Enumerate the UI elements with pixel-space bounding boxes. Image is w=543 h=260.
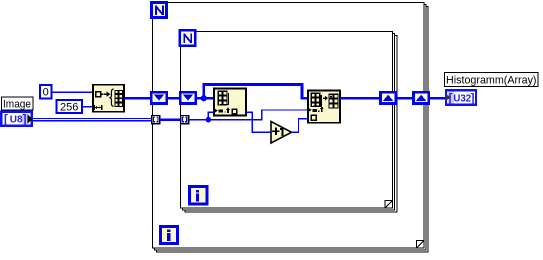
wire pixel stub up into Index Array index input bbox=[208, 112, 209, 120]
iteration terminal i inner bbox=[190, 187, 208, 205]
shift register outer right (up arrow) bbox=[414, 92, 429, 103]
indicator terminal Histogramm [U32] 1D array bbox=[445, 90, 476, 105]
for-loop outer main frame bbox=[153, 3, 425, 249]
for-loop inner frame stacked copies bbox=[183, 34, 397, 213]
count terminal N inner bbox=[180, 30, 196, 46]
control label Image bbox=[2, 97, 34, 110]
wire 0 to Initialize Array bbox=[51, 92, 93, 94]
svg-text:[: [ bbox=[4, 114, 8, 126]
count terminal N outer bbox=[152, 3, 167, 18]
wire +1 output up into Replace new-element input bbox=[292, 132, 300, 133]
wire Initialize Array output to outer left shift register (1D array, thick) bbox=[124, 97, 152, 100]
function Index Array U2 bbox=[214, 89, 246, 116]
shift register inner right (up arrow) bbox=[381, 92, 396, 103]
svg-text:]: ] bbox=[23, 114, 27, 126]
wire Index Array output down to +1 bbox=[246, 112, 253, 113]
for-loop inner folded corner bbox=[385, 201, 393, 209]
wire junction riser and top rail to Replace Array Subset (thick) bbox=[202, 83, 205, 97]
wire 256 to Initialize Array bbox=[82, 106, 93, 108]
svg-text:U8: U8 bbox=[10, 115, 23, 126]
tunnel auto-index outer [] bbox=[152, 115, 160, 123]
svg-text:Image: Image bbox=[3, 98, 31, 110]
function increment +1 bbox=[271, 122, 292, 144]
svg-text:U32: U32 bbox=[453, 93, 471, 104]
svg-text:[: [ bbox=[449, 93, 453, 105]
wire pixel junction dot bbox=[206, 117, 212, 123]
function Replace Array Subset U3 bbox=[308, 90, 340, 122]
wire inner right SR to outer right SR (thick) bbox=[396, 97, 414, 100]
tunnel auto-index inner [] bbox=[181, 115, 189, 123]
svg-text:]: ] bbox=[471, 93, 475, 105]
wire inner SR to Index Array through junction (thick) bbox=[196, 97, 214, 100]
control terminal Image [U8] 2D array bbox=[1, 112, 32, 127]
wire outer right SR to indicator terminal (thick) bbox=[429, 97, 447, 100]
wire Replace output to inner right shift register (thick) bbox=[340, 97, 381, 100]
function Initialize Array U1 bbox=[93, 85, 124, 112]
indicator label Histogramm(Array) bbox=[445, 73, 539, 87]
for-loop inner main frame bbox=[181, 32, 393, 209]
wire outer tunnel to inner tunnel (1D row, thick) bbox=[160, 119, 181, 121]
numeric constant 0 bbox=[40, 85, 51, 99]
numeric constant 256 bbox=[57, 100, 83, 114]
wire outer SR to inner SR (thick) bbox=[167, 97, 181, 100]
wire pixel riser up and rail to Replace index input bbox=[261, 109, 262, 119]
wire junction dot bbox=[201, 95, 207, 101]
wire pixel scalar from inner tunnel to riser bbox=[189, 119, 263, 120]
shift register inner left (down arrow) bbox=[180, 92, 196, 103]
svg-text:0: 0 bbox=[43, 87, 49, 99]
iteration terminal i outer bbox=[161, 227, 178, 244]
for-loop outer folded corner bbox=[417, 241, 425, 249]
shift register outer left (down arrow) bbox=[151, 92, 167, 103]
svg-text:Histogramm(Array): Histogramm(Array) bbox=[446, 75, 537, 87]
wire Image 2D array to outer tunnel (double line) bbox=[33, 118, 152, 119]
svg-text:256: 256 bbox=[60, 102, 78, 114]
for-loop outer frame stacked copies bbox=[155, 5, 429, 253]
